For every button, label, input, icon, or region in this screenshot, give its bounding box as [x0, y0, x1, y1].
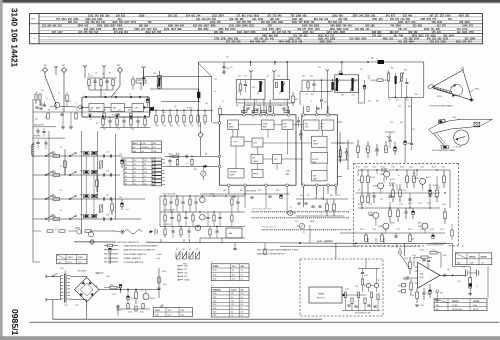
- svg-text:S4: S4: [125, 172, 127, 174]
- svg-text:C15: C15: [117, 129, 120, 131]
- resistor R78: [367, 196, 370, 203]
- svg-text:629: 629: [229, 18, 234, 21]
- audio right resistor: [451, 230, 453, 236]
- indicator lamp: [89, 232, 94, 237]
- caps row2: [37, 140, 39, 142]
- tonearm foot: [441, 145, 449, 149]
- IC2 block FM IF: [262, 120, 275, 130]
- wire mains return: [53, 300, 322, 320]
- pickup platter circle: [451, 84, 463, 96]
- svg-text:761: 761: [287, 31, 292, 34]
- antenna A3 diamond: [117, 67, 122, 72]
- wire label row2: [33, 137, 65, 139]
- trimmer TR1: [100, 161, 103, 168]
- svg-text:R48: R48: [80, 215, 83, 217]
- svg-text:S1: S1: [125, 160, 127, 162]
- wire gram vert up: [346, 269, 348, 296]
- resistor Rb1: [155, 116, 157, 123]
- elco C60: [404, 141, 407, 144]
- svg-text:941: 941: [270, 38, 275, 41]
- wire tone drop2: [221, 238, 223, 243]
- svg-text:DRIVE: DRIVE: [313, 144, 318, 146]
- svg-text:R122: R122: [75, 305, 79, 307]
- svg-text:GP204: GP204: [437, 96, 442, 98]
- svg-text:VOLTS: VOLTS: [231, 289, 236, 291]
- svg-text:M8: M8: [371, 58, 374, 60]
- af box balance: [226, 228, 242, 238]
- wire under IC: [200, 193, 290, 195]
- svg-text:BC158: BC158: [390, 179, 395, 181]
- svg-text:RIPPLE: RIPPLE: [253, 174, 258, 176]
- IC2 block RIPPLE: [252, 170, 263, 178]
- wire col4 up: [97, 131, 99, 149]
- wire det box right: [359, 75, 365, 103]
- svg-text:R81: R81: [240, 190, 243, 192]
- svg-text:V124: V124: [213, 308, 217, 310]
- svg-text:V125: V125: [213, 311, 217, 313]
- af transistor T5: [200, 197, 206, 203]
- svg-text:P 2043: P 2043: [187, 108, 192, 110]
- wire pots rail: [296, 198, 348, 200]
- IC left pins: [218, 122, 221, 125]
- svg-text:C45: C45: [106, 152, 109, 154]
- svg-text:C140: C140: [372, 167, 376, 169]
- resistor R75: [361, 176, 364, 183]
- resistor R65: [339, 150, 342, 157]
- svg-text:R6: R6: [48, 110, 50, 112]
- FM coil can B: [273, 80, 290, 100]
- table E2 grid: [124, 161, 155, 163]
- wire FM pins drop: [243, 99, 245, 113]
- svg-text:C9: C9: [90, 110, 92, 112]
- svg-text:R55: R55: [376, 101, 379, 103]
- svg-text:R30: R30: [236, 105, 239, 107]
- svg-text:B5: B5: [96, 286, 98, 288]
- svg-text:R143: R143: [400, 167, 404, 169]
- switch S2a contact: [45, 174, 47, 176]
- audio verticals: [357, 170, 359, 176]
- svg-text:C12: C12: [44, 117, 47, 119]
- svg-text:R9: R9: [104, 110, 106, 112]
- svg-text:C41: C41: [95, 152, 98, 154]
- table amp data diagonal: [434, 299, 448, 303]
- wire left join: [33, 111, 44, 113]
- IC2 vertical connects: [232, 130, 234, 137]
- svg-text:C142: C142: [420, 167, 424, 169]
- U1 input wire: [60, 105, 79, 108]
- tonearm body outline: [429, 119, 493, 133]
- svg-text:C48: C48: [106, 215, 109, 217]
- svg-text:K3: K3: [412, 239, 414, 241]
- transistor T14: [422, 223, 428, 229]
- amp bootstrap elco CE95: [429, 290, 432, 293]
- table switch positions frame: [132, 141, 162, 153]
- svg-text:R94: R94: [321, 198, 324, 200]
- IC2 main outline: [220, 115, 297, 185]
- svg-text:2568: 2568: [320, 41, 326, 44]
- capacitor C65: [345, 151, 348, 153]
- amp feedback resistor R96: [430, 252, 437, 254]
- speaker second bars: [476, 270, 478, 277]
- tuner IC left pin dot: [81, 107, 83, 109]
- capacitor C7: [60, 113, 63, 115]
- wire feed top: [339, 132, 341, 163]
- svg-text:1118: 1118: [262, 28, 268, 31]
- wire switch row 2: [33, 174, 120, 176]
- svg-text:KHz: KHz: [153, 143, 156, 145]
- FM box1 C1: [245, 80, 247, 84]
- af transistor T7: [195, 225, 201, 231]
- svg-text:21.0: 21.0: [231, 304, 234, 306]
- svg-text:R60: R60: [396, 100, 399, 102]
- elco CE1: [121, 160, 124, 163]
- resistor R10: [130, 113, 132, 119]
- trimmer R59: [400, 73, 402, 81]
- resistor R102: [237, 196, 239, 202]
- tonearm cartridge box: [438, 119, 445, 123]
- svg-text:8V 50: 8V 50: [68, 262, 72, 264]
- svg-text:979: 979: [462, 41, 467, 44]
- wire amp top drop: [452, 244, 454, 267]
- IF transformer S3 core: [197, 92, 200, 98]
- sheet bottom rule: [30, 321, 500, 323]
- capacitor Ct4: [110, 217, 112, 220]
- wire switch row 4: [33, 218, 141, 220]
- amp input resistor R97: [409, 262, 412, 269]
- svg-text:GMT: GMT: [183, 264, 187, 266]
- svg-text:282: 282: [465, 15, 470, 18]
- svg-text:R140: R140: [356, 167, 360, 169]
- resistor R58 dark: [395, 76, 397, 84]
- svg-text:C50: C50: [360, 69, 363, 71]
- wire to zener: [453, 266, 471, 268]
- wire down x405: [404, 97, 406, 140]
- connector strip stubs: [162, 159, 166, 161]
- svg-text:618: 618: [94, 31, 99, 34]
- svg-text:V120: V120: [213, 293, 217, 295]
- svg-text:C50: C50: [119, 197, 122, 199]
- svg-text:373: 373: [440, 15, 445, 18]
- resistor R120h: [110, 286, 117, 289]
- svg-text:b: b: [211, 285, 212, 287]
- speaker terminals: [465, 270, 467, 277]
- svg-text:SUBJECT TO MODIFICATION: SUBJECT TO MODIFICATION: [257, 253, 285, 256]
- aerial Y2: [83, 65, 87, 67]
- svg-text:SAF: SAF: [313, 175, 316, 178]
- capacitor C58: [406, 78, 408, 82]
- wire bus corner drop: [423, 62, 425, 97]
- antenna A2 diamond: [61, 67, 66, 72]
- capacitor C60h: [185, 155, 187, 158]
- svg-text:S2: S2: [60, 166, 62, 168]
- svg-text:9.1: 9.1: [231, 308, 233, 310]
- amp lower resistor R98: [410, 283, 413, 290]
- resistor R67: [326, 204, 329, 211]
- svg-text:1244: 1244: [449, 34, 455, 37]
- resistor Rs4: [53, 218, 60, 221]
- svg-text:385: 385: [214, 31, 219, 34]
- svg-text:C120: C120: [96, 273, 100, 275]
- resistor Rb4: [176, 116, 178, 123]
- IC3 block SUPPLY: [321, 120, 334, 130]
- parts table sub row lines: [39, 16, 483, 18]
- resistor Rv3: [111, 204, 114, 211]
- svg-text:R42: R42: [302, 76, 305, 78]
- svg-text:MTSL: MTSL: [31, 19, 36, 21]
- svg-text:2: 2: [75, 103, 76, 105]
- resistor R83: [436, 190, 439, 197]
- node circle small: [161, 305, 163, 307]
- svg-text:R28: R28: [198, 126, 201, 128]
- wire box verticals: [449, 170, 451, 208]
- svg-text:4: 4: [300, 101, 301, 103]
- transistor T13: [383, 223, 389, 229]
- svg-text:C47: C47: [106, 195, 109, 197]
- svg-text:R45: R45: [311, 94, 314, 96]
- svg-text:443: 443: [348, 25, 353, 28]
- svg-text:984: 984: [47, 25, 52, 28]
- svg-text:R66: R66: [400, 122, 403, 124]
- wire feedback: [414, 257, 417, 266]
- svg-text:899: 899: [360, 28, 365, 31]
- table semiconductors grid: [211, 267, 249, 269]
- svg-text:246: 246: [359, 15, 364, 18]
- svg-text:R83: R83: [276, 190, 279, 192]
- svg-text:2620: 2620: [352, 15, 358, 18]
- svg-text:S4: S4: [60, 210, 62, 212]
- svg-text:50Hz: 50Hz: [181, 310, 185, 312]
- resistor Rb7: [197, 116, 199, 123]
- capacitor C14 right of IC: [143, 70, 145, 77]
- svg-text:(BC238): (BC238): [389, 185, 395, 187]
- svg-text:R63 C64 R67: R63 C64 R67: [34, 124, 44, 126]
- wire col5 up: [114, 134, 116, 149]
- svg-text:561: 561: [394, 34, 399, 37]
- junction dots bottom row: [155, 110, 156, 111]
- svg-text:4781: 4781: [372, 18, 378, 21]
- ladder verticals: [85, 156, 87, 171]
- svg-text:12.1: 12.1: [144, 160, 147, 162]
- FM box1 divider: [250, 80, 252, 100]
- wire bus drops FM: [250, 62, 252, 66]
- table voltages frame: [455, 253, 492, 265]
- ratio det coil box: [335, 75, 359, 93]
- svg-text:C90: C90: [300, 195, 303, 197]
- gram transistor T17: [374, 283, 378, 287]
- svg-text:T30: T30: [355, 286, 358, 288]
- svg-text:C49: C49: [119, 154, 122, 156]
- caps under IC: [232, 195, 235, 197]
- svg-text:C64: C64: [390, 122, 393, 124]
- svg-text:709: 709: [91, 21, 96, 24]
- svg-text:C44: C44: [95, 215, 98, 217]
- IC bottom pins: [228, 184, 231, 187]
- IC2 block REF SUPPLY: [228, 169, 244, 179]
- resistor R21 at IC pin: [219, 109, 222, 115]
- band coil ladder: [84, 151, 90, 154]
- switch bank symbols: [175, 253, 177, 260]
- wire diagonal to amp: [400, 254, 410, 269]
- svg-text:6.3: 6.3: [231, 297, 233, 299]
- psu joints: [120, 289, 121, 290]
- svg-text:SUPPLY: SUPPLY: [230, 175, 236, 177]
- svg-text:C97: C97: [337, 195, 340, 197]
- bridge rectifier B1 outline: [75, 277, 99, 301]
- svg-text:C27: C27: [191, 126, 194, 128]
- svg-text:R147: R147: [384, 149, 388, 151]
- wire horiz y89: [150, 88, 198, 90]
- capacitor Ct2: [110, 173, 112, 176]
- resistor R70: [357, 146, 360, 153]
- svg-text:141: 141: [365, 28, 370, 31]
- capacitor Ct3: [110, 197, 112, 200]
- table voltages2 grid: [211, 290, 249, 292]
- svg-text:L41: L41: [339, 71, 342, 73]
- svg-text:1171: 1171: [405, 21, 411, 24]
- svg-text:4886: 4886: [210, 25, 216, 28]
- trimmer CT1 tall: [157, 76, 161, 88]
- svg-text:153: 153: [355, 28, 360, 31]
- wire amp output: [440, 274, 466, 276]
- svg-text:3574: 3574: [218, 15, 224, 18]
- svg-text:470: 470: [41, 90, 44, 92]
- wire L41 from bus: [341, 62, 343, 73]
- svg-text:Z1: Z1: [476, 286, 478, 288]
- ratio det trimmer 2: [351, 78, 353, 91]
- svg-text:1 254: 1 254: [142, 143, 146, 145]
- wire audio rail y193: [356, 192, 440, 194]
- table semiconductors frame: [211, 264, 249, 281]
- resistor R71: [367, 146, 370, 153]
- svg-text:C156: C156: [372, 229, 376, 231]
- svg-text:R160: R160: [404, 258, 408, 260]
- wire gram top rail: [358, 268, 380, 270]
- trimmer CT1 core: [158, 78, 160, 87]
- IC top components row: [246, 107, 249, 109]
- capacitor C9: [88, 113, 91, 115]
- resistor R86: [397, 210, 400, 217]
- wire tuner out rail: [145, 76, 212, 78]
- resistor R46 dark: [331, 82, 333, 90]
- capacitor Cs4: [103, 217, 105, 220]
- wire det rail y91: [300, 90, 332, 92]
- svg-text:≥ 1μF: ≥ 1μF: [156, 258, 160, 260]
- svg-text:P1: P1: [290, 207, 292, 209]
- svg-text:2058: 2058: [250, 31, 256, 34]
- svg-text:906: 906: [250, 41, 255, 44]
- svg-text:BC148: BC148: [150, 298, 155, 300]
- resistor R77: [361, 196, 364, 203]
- switch S1a contact: [45, 155, 47, 157]
- gram bottom stubs: [345, 298, 347, 311]
- tonearm switch block: [474, 122, 480, 127]
- svg-text:632: 632: [193, 25, 198, 28]
- svg-text:L30: L30: [238, 76, 241, 78]
- capacitor C47: [321, 80, 323, 99]
- svg-text:16.8V: 16.8V: [470, 262, 474, 264]
- svg-text:R141: R141: [364, 167, 368, 169]
- svg-text:7.2V: 7.2V: [481, 262, 484, 264]
- IC internal wiring: [239, 124, 262, 126]
- wire under-IC row rail: [100, 127, 150, 129]
- svg-text:868: 868: [418, 25, 423, 28]
- ratio det trimmer 1: [336, 78, 338, 91]
- wire main left lower: [32, 231, 34, 262]
- elco CE75: [429, 190, 432, 193]
- svg-text:R1: R1: [36, 92, 38, 94]
- svg-text:R42: R42: [52, 171, 55, 173]
- svg-text:C20: C20: [226, 68, 229, 70]
- elco CE70: [394, 147, 397, 150]
- svg-text:C67: C67: [412, 129, 415, 131]
- svg-text:802: 802: [274, 34, 279, 37]
- IC2 block AF AMP1: [228, 120, 239, 130]
- svg-text:672: 672: [469, 25, 474, 28]
- svg-text:R41: R41: [52, 152, 55, 154]
- svg-text:370: 370: [372, 34, 377, 37]
- wire bus drop left: [197, 62, 199, 122]
- legend plate ceramic row: [104, 253, 108, 255]
- resistor Rb2: [162, 116, 164, 123]
- legend electrolytic row: [104, 249, 108, 251]
- svg-text:AMP1: AMP1: [229, 126, 234, 129]
- svg-text:210: 210: [58, 25, 63, 28]
- resistor R89: [409, 235, 412, 242]
- svg-text:C24: C24: [252, 87, 255, 89]
- left page edge strip: [0, 0, 3, 340]
- svg-text:C401: C401: [453, 117, 457, 119]
- svg-text:413: 413: [310, 31, 315, 34]
- caps row1: [37, 128, 39, 130]
- svg-text:V123: V123: [213, 304, 217, 306]
- resistor Rb3: [169, 116, 171, 123]
- svg-text:BF194: BF194: [66, 101, 71, 103]
- svg-text:C21: C21: [214, 79, 217, 81]
- svg-text:2648: 2648: [242, 25, 248, 28]
- svg-text:GP305: GP305: [475, 89, 480, 91]
- svg-text:R42: R42: [53, 172, 56, 174]
- coil L2 ferrite rod: [136, 80, 146, 83]
- wire switch row 1: [33, 155, 121, 157]
- svg-text:THIS CIRCUIT AND PARTS MARKED: THIS CIRCUIT AND PARTS MARKED ✶ ARE: [257, 248, 299, 251]
- tonearm pivot arrow: [456, 137, 465, 139]
- bridge rectifier inner diamond: [80, 283, 93, 296]
- svg-text:C43: C43: [310, 76, 313, 78]
- svg-text:3: 3: [311, 101, 312, 103]
- svg-text:521: 521: [42, 25, 47, 28]
- resistor R79: [392, 190, 395, 197]
- trimmer TR2: [100, 205, 103, 212]
- svg-text:R163: R163: [410, 295, 414, 297]
- svg-text:L: L: [34, 29, 35, 31]
- svg-text:L10: L10: [238, 92, 241, 94]
- svg-text:11.9: 11.9: [232, 279, 235, 281]
- svg-text:S2: S2: [125, 164, 127, 166]
- svg-text:C80: C80: [223, 190, 226, 192]
- svg-text:4Ω / 5Ω: 4Ω / 5Ω: [473, 309, 479, 311]
- svg-text:202: 202: [430, 41, 435, 44]
- svg-text:C164: C164: [420, 305, 424, 307]
- switch S3b contact: [69, 198, 71, 200]
- svg-text:150: 150: [413, 173, 416, 175]
- svg-text:R32: R32: [257, 105, 260, 107]
- svg-text:T120: T120: [213, 270, 217, 272]
- table coil data frame: [124, 158, 155, 185]
- svg-text:566: 566: [298, 41, 303, 44]
- svg-text:V(E): V(E): [241, 266, 245, 268]
- table amp data frame: [434, 299, 487, 311]
- svg-text:2922: 2922: [462, 31, 468, 34]
